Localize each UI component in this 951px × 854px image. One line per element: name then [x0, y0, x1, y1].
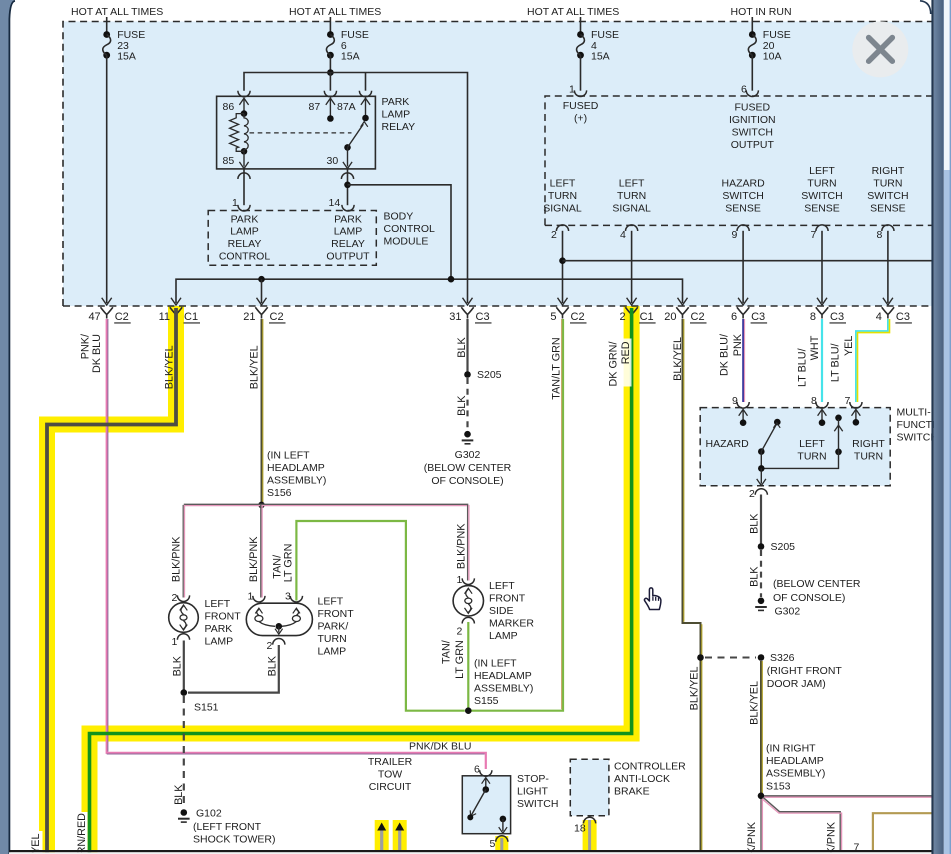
svg-text:S151: S151 [194, 702, 219, 714]
svg-text:S205: S205 [771, 541, 796, 553]
svg-text:TOW: TOW [378, 769, 402, 781]
svg-text:C2: C2 [571, 311, 585, 323]
park lamp pin 1 arc [177, 634, 189, 640]
svg-text:BLK: BLK [456, 337, 468, 358]
svg-text:18: 18 [574, 823, 586, 835]
svg-text:BLK: BLK [266, 655, 278, 676]
svg-text:21: 21 [243, 311, 255, 323]
svg-text:DK BLU/: DK BLU/ [719, 334, 731, 376]
splice S326 (right front door jam) [697, 654, 704, 661]
svg-text:C1: C1 [640, 311, 654, 323]
svg-text:LAMP: LAMP [489, 630, 518, 642]
relay pin 87 connector arc [324, 91, 336, 97]
connector 4 C3 arrow [883, 298, 893, 305]
wire feed to fuse 6 [329, 17, 331, 35]
svg-text:S156: S156 [267, 487, 292, 499]
fuse F23 [103, 31, 110, 38]
fuse F4 [577, 31, 584, 38]
svg-text:(+): (+) [574, 113, 587, 125]
scrollbar track [944, 0, 951, 854]
label DK GRN/RED bottom left [73, 812, 88, 854]
svg-text:YEL: YEL [843, 336, 855, 356]
svg-text:HOT AT ALL TIMES: HOT AT ALL TIMES [527, 6, 619, 18]
fuse F20 [749, 31, 756, 38]
relay mechanical linkage (dashed) [250, 132, 352, 134]
fuse F6 [327, 31, 334, 38]
connector 47 C2 [101, 307, 113, 318]
svg-text:SWITCH: SWITCH [801, 190, 842, 202]
connector 8 C3 [816, 307, 828, 318]
wire relay 85 to BCM pin 1 [243, 169, 245, 205]
wire BLK/YEL core from 11 C1 (highlighted) [47, 308, 176, 854]
trailer tow off-page arrow 2 [395, 823, 404, 831]
svg-text:(IN LEFT: (IN LEFT [474, 658, 517, 670]
BCM pin 2 arc [556, 225, 568, 231]
park lamp relay box [217, 96, 376, 169]
MFS pin 8 arc [816, 402, 828, 408]
svg-text:FRONT: FRONT [489, 593, 526, 605]
svg-text:DK GRN/RED: DK GRN/RED [76, 813, 88, 854]
svg-text:OF CONSOLE): OF CONSOLE) [773, 592, 845, 604]
wire fuse 4 to BCM pin 1 FUSED(+) [580, 55, 582, 90]
svg-text:HOT AT ALL TIMES: HOT AT ALL TIMES [289, 6, 381, 18]
highlight stop-light switch pin 5 wire (yellow band) [495, 836, 508, 851]
svg-text:9: 9 [732, 229, 738, 241]
left front park lamp [169, 603, 199, 633]
connector 31 C3 [461, 307, 473, 318]
svg-text:TAN/: TAN/ [441, 640, 453, 664]
svg-text:DK BLU: DK BLU [91, 334, 103, 373]
wire fuse 6 down to junction [329, 55, 331, 72]
svg-text:SIGNAL: SIGNAL [543, 203, 582, 215]
svg-text:C1: C1 [184, 311, 198, 323]
wire feed to fuse 20 [751, 17, 753, 35]
svg-text:LAMP: LAMP [334, 226, 363, 238]
wire BLK/PNK from S153 straight down [760, 799, 762, 851]
svg-text:PNK/DK BLU: PNK/DK BLU [409, 741, 471, 753]
body control module box (dashed) [208, 211, 376, 266]
multi-function switch box (dashed) [700, 408, 890, 486]
highlight DK GRN/RED wire from 2 C1 (yellow band) [90, 306, 632, 854]
svg-text:S326: S326 [770, 652, 795, 664]
svg-text:6: 6 [741, 84, 747, 96]
svg-text:BLK/YEL: BLK/YEL [164, 345, 176, 389]
svg-text:SWITCH: SWITCH [722, 190, 763, 202]
svg-text:BLK/PNK: BLK/PNK [825, 821, 837, 854]
svg-text:BLK/PNK: BLK/PNK [456, 523, 468, 569]
svg-text:HEADLAMP: HEADLAMP [474, 670, 532, 682]
svg-text:BLK/YEL: BLK/YEL [688, 667, 700, 711]
connector 8 C3 arrow [817, 298, 827, 305]
BCM connector features box (dashed) [545, 96, 932, 225]
BCM pin 8 arc [882, 225, 894, 231]
svg-text:BLK: BLK [172, 655, 184, 676]
wire BLK dashed S151 to G102 [183, 696, 185, 809]
svg-text:PARK: PARK [231, 213, 259, 225]
svg-text:S153: S153 [766, 780, 791, 792]
svg-text:RED: RED [620, 341, 632, 364]
connector 21 C2 arrow [257, 298, 267, 305]
svg-text:2: 2 [619, 311, 625, 323]
svg-text:HOT IN RUN: HOT IN RUN [731, 6, 792, 18]
svg-text:BLK: BLK [173, 784, 185, 805]
svg-text:TURN: TURN [617, 190, 646, 202]
connector 11 C1 [170, 307, 182, 318]
svg-text:G302: G302 [455, 449, 481, 461]
connector 2 C1 [625, 307, 637, 318]
svg-text:RELAY: RELAY [331, 238, 365, 250]
wire BLK from 31 C3 to S205 [466, 319, 468, 375]
svg-text:DK GRN/: DK GRN/ [608, 342, 620, 387]
wire TAN/LT GRN side marker pin 2 to S155 [467, 622, 469, 708]
scrollbar thumb [944, 0, 950, 170]
ground G102 (left front shock tower) [181, 809, 188, 816]
splice S156 [258, 502, 265, 509]
svg-text:8: 8 [877, 229, 883, 241]
svg-text:PNK: PNK [732, 333, 744, 356]
splice S153 [758, 793, 765, 800]
stop-light switch contacts [485, 779, 487, 790]
park lamp pin 2 arc [177, 595, 189, 601]
svg-text:2: 2 [749, 488, 755, 500]
svg-text:1: 1 [172, 636, 178, 648]
svg-text:(IN RIGHT: (IN RIGHT [766, 743, 816, 755]
svg-text:G102: G102 [196, 808, 222, 820]
svg-text:20: 20 [664, 311, 676, 323]
MFS pin 2 arc [755, 489, 767, 495]
BCM pin 14 arc [342, 205, 354, 211]
svg-text:LEFT: LEFT [619, 178, 645, 190]
svg-text:RIGHT: RIGHT [852, 438, 885, 450]
junction relay 30 output [344, 182, 351, 189]
connector 20 C2 arrow [678, 298, 688, 305]
relay pin 30 internal arrow [347, 147, 349, 166]
junction relay output on bus [448, 276, 455, 283]
svg-text:1: 1 [248, 591, 254, 603]
svg-text:SENSE: SENSE [804, 203, 840, 215]
svg-text:LT GRN: LT GRN [454, 640, 466, 679]
svg-text:LAMP: LAMP [230, 226, 259, 238]
svg-text:ASSEMBLY): ASSEMBLY) [474, 683, 533, 695]
svg-text:ASSEMBLY): ASSEMBLY) [267, 475, 326, 487]
wire BCM pin7 to 8 C3 [821, 231, 823, 303]
svg-text:14: 14 [329, 197, 341, 209]
wire BLK from MFS pin 2 to S205 [760, 495, 762, 547]
MFS pin 9 arc [737, 402, 749, 408]
stop-light switch box [462, 776, 510, 834]
svg-text:STOP-: STOP- [517, 773, 549, 785]
wire fuse 6 bus to relay 86 87 87A and 31 C3 [244, 73, 468, 304]
close button [852, 21, 908, 77]
svg-text:5: 5 [550, 311, 556, 323]
side marker pin 1 arc [462, 578, 474, 584]
wire fuse 23 to 47 C2 [106, 55, 108, 303]
MFS pin 8 contact [821, 411, 823, 423]
pin 6 arc [746, 90, 758, 96]
svg-text:SHOCK TOWER): SHOCK TOWER) [193, 834, 275, 846]
svg-text:ASSEMBLY): ASSEMBLY) [766, 768, 825, 780]
svg-text:C3: C3 [896, 311, 910, 323]
connector 6 C3 arrow [738, 298, 748, 305]
wire stub to relay 87A [365, 73, 367, 91]
svg-text:SENSE: SENSE [870, 203, 906, 215]
wire BLK/YEL S326 to S153 [760, 661, 762, 796]
svg-text:WHT: WHT [809, 335, 821, 360]
svg-text:15A: 15A [117, 51, 136, 63]
svg-text:C2: C2 [691, 311, 705, 323]
wire feed to fuse 23 [106, 17, 108, 35]
svg-text:RELAY: RELAY [228, 238, 262, 250]
connector 20 C2 [676, 307, 688, 318]
svg-text:PARK: PARK [334, 213, 362, 225]
wire bus to 21 C2 [261, 279, 263, 303]
wire TAN bottom right corner [873, 813, 932, 851]
svg-text:HEADLAMP: HEADLAMP [766, 755, 824, 767]
svg-text:LEFT: LEFT [799, 438, 825, 450]
park/turn filament right [292, 616, 300, 622]
connector 5 C2 arrow [558, 298, 568, 305]
svg-text:31: 31 [449, 311, 461, 323]
svg-text:BLK/PNK: BLK/PNK [746, 821, 758, 854]
svg-text:4: 4 [876, 311, 882, 323]
wire BCM pin2 to 5 C2 [562, 231, 564, 303]
svg-text:RIGHT: RIGHT [872, 165, 905, 177]
svg-text:TURN: TURN [873, 178, 902, 190]
highlight BLK/YEL wire from 11 C1 (yellow band) [47, 306, 176, 854]
MFS pin 7 arc [850, 402, 862, 408]
connector 47 C2 arrow [102, 298, 112, 305]
svg-text:8: 8 [811, 395, 817, 407]
left front side marker lamp [453, 586, 483, 616]
svg-text:15A: 15A [341, 51, 360, 63]
svg-text:6: 6 [474, 764, 480, 776]
relay pin 30 connector arc below box [341, 173, 353, 179]
highlight trailer tow wire 1 (yellow band) [375, 820, 389, 851]
relay pin 85 internal arrow [243, 151, 245, 166]
svg-text:(LEFT FRONT: (LEFT FRONT [193, 821, 262, 833]
wire stub to relay 87 [329, 73, 331, 91]
svg-text:LT BLU/: LT BLU/ [796, 348, 808, 387]
svg-text:HOT AT ALL TIMES: HOT AT ALL TIMES [71, 6, 163, 18]
svg-text:LIGHT: LIGHT [517, 786, 549, 798]
svg-text:C3: C3 [830, 311, 844, 323]
svg-text:RELAY: RELAY [382, 121, 416, 133]
wire BLK/PNK to side marker pin 1 [467, 505, 469, 581]
svg-text:(IN LEFT: (IN LEFT [267, 450, 310, 462]
svg-text:FRONT: FRONT [205, 611, 242, 623]
park/turn common junction [276, 623, 283, 630]
svg-text:TURN: TURN [318, 633, 347, 645]
svg-text:9: 9 [732, 395, 738, 407]
svg-text:LAMP: LAMP [382, 109, 411, 121]
svg-text:C3: C3 [751, 311, 765, 323]
wire BLK/PNK from S153 diagonal to bottom [763, 797, 840, 851]
svg-text:ANTI-LOCK: ANTI-LOCK [614, 773, 670, 785]
svg-text:8: 8 [810, 311, 816, 323]
window left border [0, 0, 15, 854]
wire relay 30 to BCM pin 14 [347, 169, 349, 205]
wire BLK/PNK to park lamp pin 2 [182, 505, 184, 598]
connector 4 C3 [882, 307, 894, 318]
svg-text:SWITCH: SWITCH [867, 190, 908, 202]
svg-text:SIGNAL: SIGNAL [612, 203, 651, 215]
svg-text:BLK/YEL: BLK/YEL [672, 337, 684, 381]
park/turn pin 1 arc [253, 596, 265, 602]
svg-text:PNK/: PNK/ [79, 334, 91, 359]
svg-text:TURN: TURN [797, 451, 826, 463]
splice S151 [181, 689, 188, 696]
connector 21 C2 [255, 307, 267, 318]
svg-text:MODULE: MODULE [384, 235, 429, 247]
relay pin 85 connector arc below box [238, 173, 250, 179]
svg-text:(BELOW CENTER: (BELOW CENTER [424, 462, 512, 474]
svg-text:TRAILER: TRAILER [368, 756, 413, 768]
svg-text:CONTROL: CONTROL [219, 251, 270, 263]
wire BLK/YEL from 20 C2 to S326 and below [683, 319, 701, 851]
svg-text:87: 87 [309, 101, 321, 113]
wire BLK dashed to G302 (right) [760, 550, 762, 597]
svg-text:85: 85 [223, 155, 235, 167]
svg-text:PARK/: PARK/ [318, 621, 349, 633]
label BLK/YEL bottom left [28, 831, 43, 854]
stop-light pin 5 arc [496, 836, 508, 842]
wire LT BLU/WHT from 8 C3 to pin 8 [821, 319, 823, 402]
side marker pin 2 arc [462, 617, 474, 623]
svg-text:SIDE: SIDE [489, 605, 514, 617]
label DK GRN/ RED (2 C1) [605, 339, 632, 387]
wire LT BLU/YEL from 4 C3 to pin 7 [856, 319, 888, 402]
svg-text:FUSED: FUSED [563, 100, 599, 112]
svg-text:OUTPUT: OUTPUT [326, 251, 370, 263]
relay pin 87A connector arc [359, 91, 371, 97]
svg-text:(BELOW CENTER: (BELOW CENTER [773, 578, 861, 590]
BCM pin 4 arc [626, 225, 638, 231]
svg-text:15A: 15A [591, 51, 610, 63]
svg-text:3: 3 [285, 591, 291, 603]
svg-text:HAZARD: HAZARD [722, 178, 766, 190]
svg-text:CIRCUIT: CIRCUIT [369, 781, 412, 793]
svg-text:FRONT: FRONT [318, 608, 355, 620]
ABS pin 18 arc [584, 817, 596, 823]
svg-text:BLK/YEL: BLK/YEL [749, 681, 761, 725]
connector 5 C2 [556, 307, 568, 318]
svg-text:C3: C3 [476, 311, 490, 323]
svg-text:DOOR JAM): DOOR JAM) [767, 678, 826, 690]
wire BCM pin8 to 4 C3 [887, 231, 889, 303]
wire DK BLU/PNK from 6 C3 to multi-function switch pin 9 [742, 319, 744, 402]
svg-text:C2: C2 [115, 311, 129, 323]
svg-text:LAMP: LAMP [318, 646, 347, 658]
svg-text:1: 1 [569, 84, 575, 96]
svg-text:LT BLU/: LT BLU/ [830, 344, 842, 383]
wire PNK/DK BLU from 47 C2 to stop-light switch [107, 319, 486, 769]
wire BLK/PNK bus from S156 [184, 503, 469, 505]
svg-text:4: 4 [620, 229, 626, 241]
svg-text:HAZARD: HAZARD [706, 438, 750, 450]
window bottom border [9, 850, 932, 852]
park/turn pin 2 arc [273, 638, 285, 644]
MFS common wire [761, 452, 838, 469]
relay pin 86 connector arc [238, 91, 250, 97]
junction fuse 6 output [327, 69, 334, 76]
park/turn pin 3 arc [290, 596, 302, 602]
wire BLK/YEL from 21 C2 to S156 [261, 319, 263, 502]
svg-text:TURN: TURN [807, 178, 836, 190]
svg-text:MULTI-: MULTI- [897, 407, 932, 419]
wire TAN/LT GRN from 5 C2 to S155 [471, 319, 563, 711]
svg-text:S205: S205 [477, 369, 502, 381]
svg-text:MARKER: MARKER [489, 618, 534, 630]
svg-text:LEFT: LEFT [489, 580, 515, 592]
relay pin 87A internal arrow [365, 100, 367, 119]
ground G302 (right) [758, 598, 765, 605]
relay switch blade 30 to 87A [344, 144, 351, 151]
svg-text:BLK: BLK [456, 395, 468, 416]
MFS turn switch blade [835, 415, 842, 422]
wire BCM pin4 to 2 C1 [631, 231, 633, 303]
svg-text:BLK/YEL: BLK/YEL [249, 345, 261, 389]
svg-text:LEFT: LEFT [809, 165, 835, 177]
wire BLK dashed S205 to G302 [466, 378, 468, 431]
svg-text:TAN/LT GRN: TAN/LT GRN [551, 337, 563, 399]
svg-text:7: 7 [811, 229, 817, 241]
svg-text:2: 2 [267, 640, 273, 652]
relay pin 87 internal arrow [329, 100, 331, 119]
wire DK GRN/RED core from 2 C1 (highlighted) [90, 308, 632, 854]
stop-light pin 6 arc [480, 770, 492, 776]
splice S155 [465, 707, 472, 714]
svg-text:6: 6 [731, 311, 737, 323]
wire fuse 20 to BCM pin 6 [751, 55, 753, 90]
svg-text:LEFT: LEFT [550, 178, 576, 190]
svg-text:S155: S155 [474, 695, 499, 707]
power distribution box dashed border [63, 22, 932, 307]
connector 2 C1 arrow [627, 298, 637, 305]
svg-text:2: 2 [172, 592, 178, 604]
svg-text:87A: 87A [337, 101, 356, 113]
svg-text:OUTPUT: OUTPUT [731, 139, 775, 151]
svg-text:1: 1 [232, 197, 238, 209]
MFS hazard switch blade [758, 448, 765, 455]
connector 31 C3 arrow [463, 298, 473, 305]
junction 21 C2 on bus [258, 276, 265, 283]
connector 11 C1 arrow [171, 298, 181, 305]
highlight controller anti-lock brake pin 18 wire (yellow band) [583, 820, 597, 851]
mouse cursor (hand pointer) [644, 588, 660, 610]
svg-text:BLK/PNK: BLK/PNK [170, 536, 182, 582]
MFS pin 9 contact [742, 411, 744, 423]
svg-text:(RIGHT FRONT: (RIGHT FRONT [767, 665, 843, 677]
svg-text:2: 2 [551, 229, 557, 241]
svg-text:5: 5 [490, 838, 496, 850]
svg-text:CONTROL: CONTROL [384, 223, 435, 235]
relay coil [241, 110, 248, 117]
svg-text:LT GRN: LT GRN [282, 544, 294, 583]
svg-text:HEADLAMP: HEADLAMP [267, 462, 325, 474]
svg-text:OF CONSOLE): OF CONSOLE) [431, 475, 503, 487]
wire relay 30 output to right [348, 185, 452, 279]
BCM pin 1 arc [238, 205, 250, 211]
splice S205 (right) [758, 543, 765, 550]
BCM pin 7 arc [816, 225, 828, 231]
svg-text:LEFT: LEFT [318, 596, 344, 608]
window right border [931, 0, 933, 854]
wire BLK/PNK from S153 to right edge [764, 795, 932, 797]
svg-text:SWITCH: SWITCH [517, 798, 558, 810]
svg-text:SWITCH: SWITCH [732, 127, 773, 139]
svg-text:30: 30 [327, 155, 339, 167]
svg-text:PARK: PARK [205, 623, 233, 635]
